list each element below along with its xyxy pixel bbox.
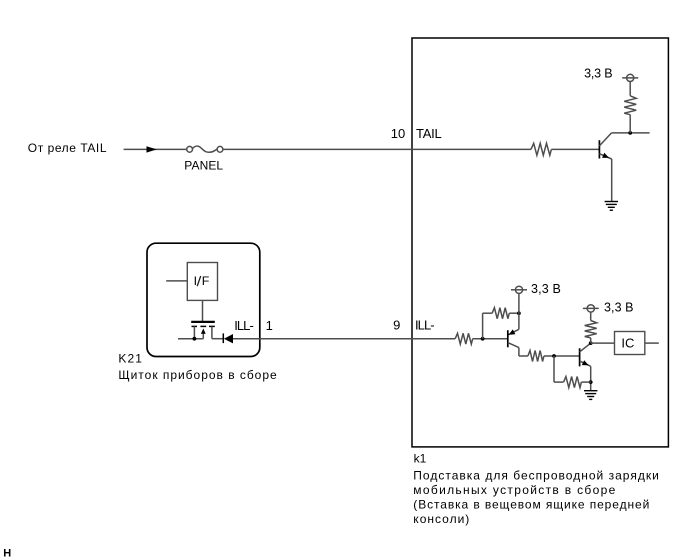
svg-text:Щиток приборов в сборе: Щиток приборов в сборе bbox=[118, 368, 277, 382]
svg-text:3,3 В: 3,3 В bbox=[584, 67, 613, 81]
svg-text:IC: IC bbox=[621, 335, 634, 350]
svg-text:K21: K21 bbox=[118, 351, 142, 365]
svg-text:ILL-: ILL- bbox=[415, 318, 435, 333]
svg-text:От реле TAIL: От реле TAIL bbox=[28, 141, 107, 155]
svg-text:(Вставка в вещевом ящике перед: (Вставка в вещевом ящике передней bbox=[413, 498, 649, 512]
svg-text:10: 10 bbox=[391, 126, 405, 141]
svg-text:консоли): консоли) bbox=[413, 512, 469, 526]
svg-text:ILL-: ILL- bbox=[234, 318, 254, 333]
svg-text:мобильных устройств в сборе: мобильных устройств в сборе bbox=[413, 483, 615, 497]
svg-text:9: 9 bbox=[393, 318, 400, 333]
svg-text:Подставка для беспроводной зар: Подставка для беспроводной зарядки bbox=[413, 468, 659, 482]
svg-text:k1: k1 bbox=[414, 452, 427, 466]
svg-text:3,3 В: 3,3 В bbox=[604, 301, 634, 315]
svg-text:Н: Н bbox=[3, 547, 11, 559]
svg-text:PANEL: PANEL bbox=[184, 159, 223, 173]
svg-text:TAIL: TAIL bbox=[416, 126, 442, 141]
svg-text:3,3 В: 3,3 В bbox=[531, 282, 561, 296]
svg-text:F: F bbox=[202, 274, 210, 288]
svg-text:I: I bbox=[194, 274, 197, 288]
svg-text:1: 1 bbox=[266, 318, 273, 333]
